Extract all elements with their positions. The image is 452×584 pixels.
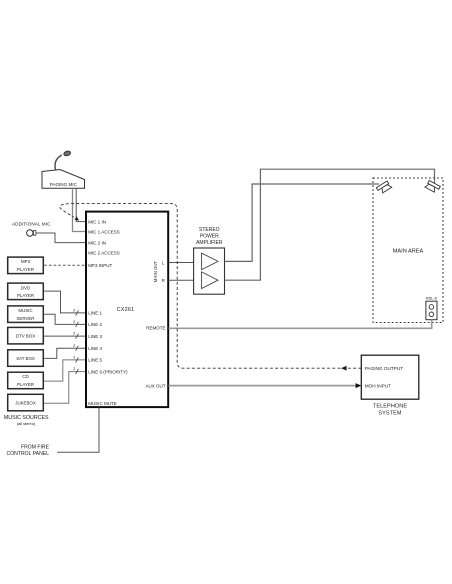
- svg-text:AMPLIFIER: AMPLIFIER: [196, 240, 223, 246]
- DTV box: [8, 327, 44, 344]
- svg-text:RSL-6: RSL-6: [426, 296, 437, 301]
- wire CD player to LINE 5: [44, 360, 86, 381]
- cable count slash LINE 5: [76, 357, 79, 362]
- cable count slash LINE 2: [76, 322, 79, 327]
- wire CX261 AUX OUT to telephone MOH INPUT: [169, 385, 360, 387]
- svg-text:TELEPHONE: TELEPHONE: [373, 403, 407, 409]
- additional mic icon: [27, 230, 33, 236]
- DVD player box: [8, 283, 44, 300]
- svg-text:MIC 2 IN: MIC 2 IN: [88, 240, 106, 245]
- svg-text:LINE 3: LINE 3: [88, 334, 102, 339]
- amplifier channel R triangle: [202, 272, 218, 289]
- main area boundary (dashed): [373, 178, 443, 323]
- paging mic base: [42, 170, 85, 189]
- svg-text:MP3 INPUT: MP3 INPUT: [88, 263, 112, 268]
- svg-text:PAGING OUTPUT: PAGING OUTPUT: [365, 366, 404, 371]
- paging mic gooseneck: [55, 155, 62, 172]
- arrowhead of paging route at mic wire: [75, 216, 80, 220]
- paging mic capsule: [63, 150, 71, 156]
- paging route (dashed) telephone PAGING OUTPUT to MIC 1 IN wire: [60, 204, 362, 369]
- wire jukebox to LINE 6: [44, 372, 86, 404]
- svg-text:MIC 1 ACCESS: MIC 1 ACCESS: [88, 229, 120, 234]
- speaker 1: [376, 181, 391, 195]
- wire amplifier L out to speaker 1: [225, 184, 380, 261]
- svg-text:(all stereo): (all stereo): [17, 421, 36, 426]
- svg-text:AUX OUT: AUX OUT: [145, 383, 165, 388]
- svg-text:CONTROL PANEL: CONTROL PANEL: [7, 451, 50, 457]
- svg-text:PLAYER: PLAYER: [17, 293, 34, 298]
- speaker 2: [425, 180, 440, 193]
- svg-text:MOH INPUT: MOH INPUT: [365, 384, 391, 389]
- wire additional mic to MIC 2 IN: [36, 233, 86, 243]
- cable count slash LINE 6: [76, 369, 79, 374]
- wire RSL-6 to CX261 REMOTE: [169, 320, 432, 329]
- wire MP3 player to MP3 INPUT (dashed): [44, 264, 86, 266]
- wire CX261 L to amplifier: [169, 262, 194, 264]
- svg-text:SYSTEM: SYSTEM: [378, 410, 402, 416]
- cable count slash LINE 3: [76, 334, 79, 339]
- svg-text:SAT BOX: SAT BOX: [16, 356, 35, 361]
- svg-text:CD: CD: [22, 374, 28, 379]
- wire music server to LINE 2: [44, 314, 86, 324]
- sat box: [8, 350, 44, 367]
- svg-text:PAGING MIC: PAGING MIC: [50, 182, 78, 187]
- arrowhead into MOH INPUT: [356, 383, 362, 388]
- arrowhead of paging route near telephone: [341, 366, 347, 371]
- svg-text:LINE 1: LINE 1: [88, 311, 102, 316]
- CD player box: [8, 372, 44, 389]
- svg-text:MIC 2 ACCESS: MIC 2 ACCESS: [88, 250, 120, 255]
- MP3 player box: [8, 257, 44, 274]
- wire DTV box to LINE 3: [44, 335, 86, 337]
- svg-text:DVD: DVD: [21, 285, 30, 290]
- svg-text:LINE 2: LINE 2: [88, 322, 102, 327]
- cable count slash LINE 1: [76, 310, 79, 315]
- wire paging mic to MIC 1 ACCESS: [73, 188, 87, 231]
- svg-text:MUSIC: MUSIC: [18, 308, 32, 313]
- svg-text:FROM FIRE: FROM FIRE: [21, 444, 50, 450]
- svg-text:STEREO: STEREO: [199, 227, 220, 233]
- svg-text:CX261: CX261: [117, 307, 135, 313]
- music server box: [8, 306, 44, 323]
- telephone system box: [361, 355, 419, 399]
- amplifier channel L triangle: [202, 253, 218, 270]
- svg-text:ADDITIONAL MIC: ADDITIONAL MIC: [12, 222, 51, 227]
- svg-text:POWER: POWER: [200, 234, 219, 240]
- svg-text:PLAYER: PLAYER: [17, 267, 34, 272]
- wire sat box to LINE 4: [44, 348, 86, 358]
- svg-text:SERVER: SERVER: [17, 316, 35, 321]
- svg-text:LINE 6 (PRIORITY): LINE 6 (PRIORITY): [88, 369, 128, 374]
- svg-text:MAIN AREA: MAIN AREA: [393, 248, 424, 254]
- svg-text:MP3: MP3: [21, 259, 31, 264]
- wire fire control panel to MUSIC MUTE: [57, 408, 99, 453]
- svg-text:MUSIC MUTE: MUSIC MUTE: [88, 401, 117, 406]
- svg-text:DTV BOX: DTV BOX: [16, 334, 35, 339]
- wire paging mic to MIC 1 IN: [76, 188, 86, 221]
- wire CX261 R to amplifier: [169, 279, 194, 281]
- svg-text:LINE 4: LINE 4: [88, 346, 102, 351]
- amplifier box: [194, 248, 225, 294]
- svg-text:REMOTE: REMOTE: [146, 326, 165, 331]
- svg-text:MIC 1 IN: MIC 1 IN: [88, 219, 106, 224]
- svg-text:PLAYER: PLAYER: [17, 382, 34, 387]
- svg-text:JUKEBOX: JUKEBOX: [15, 400, 36, 405]
- cable count slash LINE 4: [76, 346, 79, 351]
- wire amplifier R out to speaker 2: [225, 169, 435, 280]
- svg-text:LINE 5: LINE 5: [88, 358, 102, 363]
- svg-text:MAIN OUT: MAIN OUT: [153, 260, 158, 282]
- jukebox box: [8, 394, 44, 411]
- mixer CX261: [86, 212, 168, 408]
- wire DVD player to LINE 1: [44, 291, 86, 313]
